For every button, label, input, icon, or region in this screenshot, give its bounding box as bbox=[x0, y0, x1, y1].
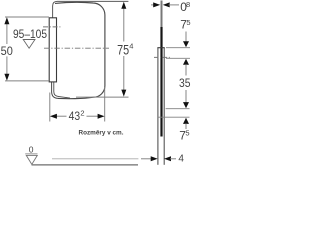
50 dimension line bbox=[6, 23, 8, 44]
side view supply pipe upper gray part bbox=[161, 1, 163, 28]
lower extension line bbox=[166, 57, 190, 59]
upper 7.5 down arrow bbox=[185, 32, 187, 43]
svg-text:35: 35 bbox=[179, 76, 191, 90]
side view profile right wall bbox=[163, 48, 165, 165]
4 dimension right arrow bbox=[164, 156, 171, 161]
lower 7.5 up arrow bbox=[183, 118, 189, 124]
0.8 dimension arrows bbox=[151, 4, 154, 6]
svg-text:75: 75 bbox=[117, 41, 129, 57]
svg-text:43: 43 bbox=[69, 109, 81, 123]
side view supply pipe black core bbox=[160, 27, 162, 137]
43 dimension line with arrows bbox=[56, 115, 66, 117]
svg-text:2: 2 bbox=[80, 108, 84, 117]
flush pipe lower bend inner wall bbox=[54, 82, 70, 98]
svg-text:50: 50 bbox=[1, 44, 13, 58]
water supply pipe (front view) bbox=[53, 1, 129, 18]
0 level symbol bar bbox=[25, 153, 37, 155]
43 right extension line bbox=[104, 87, 106, 122]
75 dimension line with arrows bbox=[123, 8, 125, 42]
top extension line bbox=[166, 47, 190, 49]
75 bottom extension line bbox=[76, 96, 129, 98]
svg-text:Rozměry v cm.: Rozměry v cm. bbox=[79, 130, 124, 137]
svg-text:5: 5 bbox=[186, 18, 190, 27]
svg-text:0: 0 bbox=[29, 145, 34, 155]
43 left extension line bbox=[49, 93, 51, 122]
35 dimension up arrow bbox=[183, 59, 189, 65]
35 dimension down arrow bbox=[185, 90, 187, 103]
side view profile top edge bbox=[157, 47, 164, 49]
side view profile left wall bbox=[157, 48, 159, 165]
50 top extension line bbox=[5, 16, 49, 18]
dash-dot level line upper (105 level) bbox=[43, 26, 61, 28]
95-105 level triangle bbox=[23, 40, 35, 49]
35 bottom reference line bbox=[166, 108, 190, 110]
floor line bbox=[32, 164, 139, 166]
svg-text:5: 5 bbox=[185, 129, 189, 138]
side view dash-dot level line bbox=[154, 56, 171, 58]
flush pipe lower bend outer wall bbox=[52, 82, 59, 98]
zero level line bbox=[52, 158, 138, 160]
dash-dot level line lower (95 level) bbox=[44, 47, 109, 49]
4 dimension line left part bbox=[141, 158, 152, 160]
lower 7.5 reference line bbox=[157, 116, 189, 118]
svg-text:4: 4 bbox=[178, 154, 184, 165]
0 level triangle bbox=[26, 155, 37, 164]
urinal body outline (front view) bbox=[55, 2, 105, 98]
svg-text:8: 8 bbox=[186, 0, 190, 9]
50 bottom extension line bbox=[5, 80, 49, 82]
flush valve box (front view) bbox=[49, 18, 56, 82]
svg-text:4: 4 bbox=[129, 42, 133, 51]
